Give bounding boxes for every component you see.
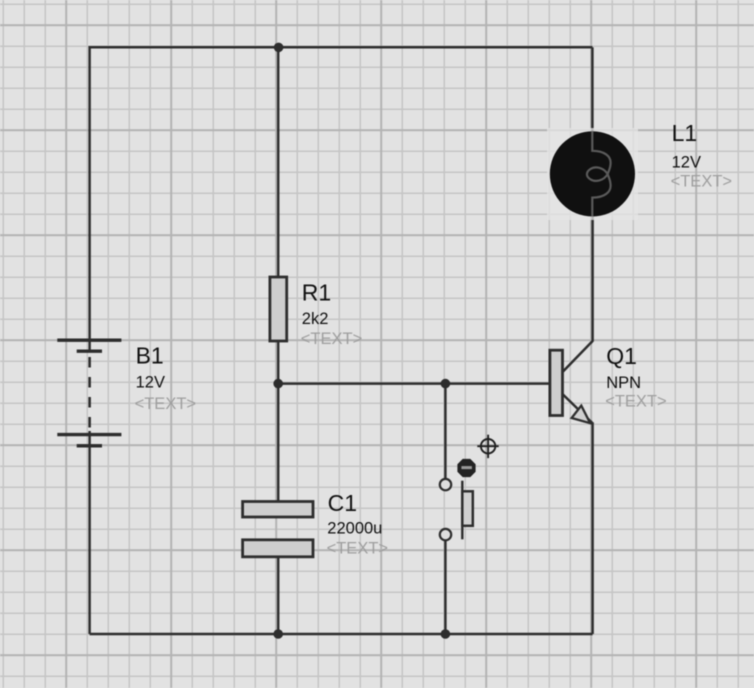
svg-text:R1: R1 xyxy=(302,280,331,306)
wire left rail lower xyxy=(88,431,91,634)
svg-text:22000u: 22000u xyxy=(327,520,382,538)
svg-text:<TEXT>: <TEXT> xyxy=(135,395,196,413)
junction bottom rail / switch xyxy=(441,629,451,639)
svg-text:<TEXT>: <TEXT> xyxy=(671,172,732,190)
svg-text:<TEXT>: <TEXT> xyxy=(301,330,362,348)
svg-text:<TEXT>: <TEXT> xyxy=(605,393,666,411)
battery B1 xyxy=(57,340,121,446)
wire left rail upper (battery feed) xyxy=(88,46,91,352)
battery short plate bottom xyxy=(77,444,102,447)
svg-text:NPN: NPN xyxy=(606,374,641,392)
junction middle rail / R1-C1 xyxy=(273,379,283,389)
transistor Q1 base bar xyxy=(550,350,563,415)
battery long plate top xyxy=(57,339,121,342)
wire lamp top feed xyxy=(591,47,594,135)
svg-text:Q1: Q1 xyxy=(606,343,637,369)
capacitor C1 plate bottom xyxy=(243,540,313,557)
switch SW knob dash xyxy=(461,466,472,469)
svg-text:C1: C1 xyxy=(328,490,357,516)
cursor crosshair xyxy=(477,435,498,458)
wire emitter diagonal xyxy=(562,394,592,423)
transistor Q1 emitter arrow xyxy=(572,406,591,424)
battery long plate bottom xyxy=(57,433,121,436)
svg-text:B1: B1 xyxy=(136,343,164,369)
wire switch top feed xyxy=(444,384,447,478)
wire collector vertical xyxy=(591,213,594,342)
svg-text:12V: 12V xyxy=(136,373,165,391)
wire switch bottom feed xyxy=(444,541,447,634)
switch SW button body xyxy=(462,491,473,526)
junction bottom rail / C1 xyxy=(273,629,283,639)
switch SW actuator bar xyxy=(461,481,463,540)
lamp L1 body xyxy=(550,131,635,216)
switch SW contact bottom xyxy=(440,529,451,540)
switch SW contact top xyxy=(440,479,451,490)
wire middle (base) rail xyxy=(278,382,550,385)
capacitor C1 plate top xyxy=(243,502,313,518)
wire emitter vertical xyxy=(591,422,594,634)
junction top rail / R1 xyxy=(274,43,284,53)
wire collector diagonal xyxy=(562,341,592,372)
wire top rail xyxy=(90,46,593,49)
junction middle rail / switch xyxy=(441,379,451,389)
svg-text:<TEXT>: <TEXT> xyxy=(327,540,388,558)
battery short plate top xyxy=(77,350,102,353)
wire C1 bottom feed xyxy=(277,556,280,634)
wire R1 bottom feed xyxy=(277,341,280,384)
lamp L1 filament xyxy=(587,132,611,217)
switch SW knob xyxy=(457,459,475,477)
svg-text:12V: 12V xyxy=(672,154,701,172)
resistor R1 xyxy=(270,277,287,341)
svg-text:2k2: 2k2 xyxy=(302,310,329,328)
wire C1 top feed xyxy=(277,384,280,502)
wire R1 top feed xyxy=(277,47,280,277)
battery dashed link xyxy=(88,357,91,430)
wire bottom rail xyxy=(90,633,593,636)
svg-text:L1: L1 xyxy=(672,120,698,146)
lamp L1 halo xyxy=(547,128,638,220)
